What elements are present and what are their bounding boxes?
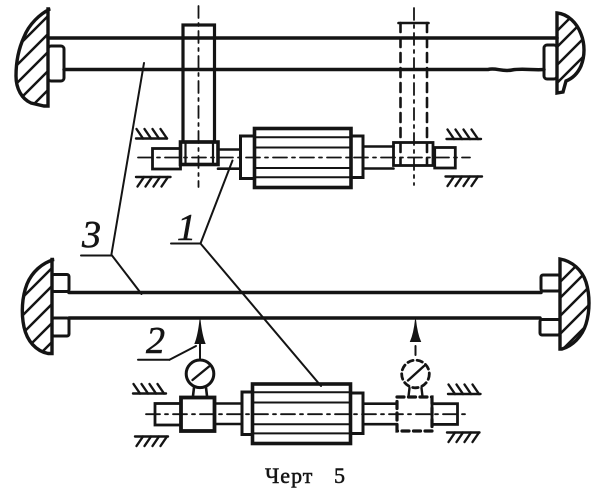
svg-text:Черт: Черт: [265, 463, 313, 488]
right column top cap: [399, 22, 429, 25]
left column centerline (vertical dash-dot): [198, 6, 200, 187]
roller body (bottom): [253, 384, 351, 444]
ground symbol top-left upper: [136, 129, 167, 139]
mandrel shaft (bottom): upper line: [69, 291, 541, 295]
ground symbol top-right upper: [447, 130, 482, 140]
mandrel shaft (top, between centers): upper line: [48, 36, 557, 40]
spindle left end piece (top assembly): [153, 149, 181, 170]
hatching of right bottom support: [552, 236, 612, 362]
leader from label 1 to top roller spindle: [201, 161, 233, 244]
svg-text:3: 3: [81, 214, 101, 256]
right column (dashed / phantom stand): [399, 23, 402, 165]
hatching of right top support: [548, 0, 612, 110]
bracket holding indicator 1: [181, 398, 215, 432]
ground symbol bottom-left lower: [135, 437, 168, 447]
ground symbol bottom-right upper: [448, 385, 481, 395]
dial indicator 1: stem: [193, 388, 207, 397]
upper boss on left bottom support: [52, 275, 69, 292]
lower boss on right bottom support: [540, 320, 560, 336]
dial indicator 1: needle: [193, 367, 210, 381]
dial indicator 1: dial face: [186, 360, 214, 388]
right column centerline (vertical dash-dot): [413, 8, 415, 185]
left support block (hatched), bottom assembly: [22, 260, 54, 354]
bracket inner wall right: [212, 142, 214, 165]
lower boss on left bottom support: [52, 318, 69, 336]
right support block (hatched), top assembly: [557, 13, 584, 93]
leader shelf under label 1: [171, 243, 201, 245]
dial indicator 2: dial face (dashed): [402, 360, 430, 388]
spindle centerline (top assembly, dash-dot): [138, 157, 470, 159]
spindle right end piece (top assembly): [435, 148, 456, 169]
base bracket of right column: [394, 143, 434, 166]
roller left collar (top): [241, 136, 255, 179]
ground symbol top-right lower: [446, 177, 483, 187]
base bracket of left column: [181, 142, 219, 165]
roller left collar (bottom): [242, 392, 253, 435]
roller body inner lines (bottom): [254, 392, 349, 433]
leader shelf under label 3: [81, 255, 112, 257]
spindle right end piece (bottom assembly): [432, 404, 458, 425]
boss on left top support: [48, 46, 64, 81]
svg-text:5: 5: [334, 463, 346, 488]
dial indicator 2: plunger rod (dashed): [415, 346, 417, 360]
spindle step between bracket 1 and roller: [215, 404, 243, 425]
dial indicator 1: plunger arrow: [195, 320, 205, 344]
roller body (top): [255, 129, 352, 188]
mandrel shaft (top): lower line: [64, 69, 544, 71]
dial indicator 2: plunger arrow: [411, 320, 421, 342]
spindle step between roller and right bracket: [363, 147, 394, 169]
ground symbol top-left lower: [136, 177, 171, 187]
spindle centerline (bottom assembly, dash-dot): [146, 413, 470, 415]
svg-text:2: 2: [146, 320, 165, 362]
roller right collar (bottom): [351, 393, 364, 434]
spindle step between left bracket and roller: [218, 150, 239, 169]
upper boss on right bottom support: [541, 275, 560, 291]
dial indicator 1: plunger rod: [199, 344, 201, 361]
leader shelf under label 2: [138, 359, 170, 361]
right support block (hatched), bottom assembly: [560, 259, 589, 349]
mandrel shaft (bottom): lower line: [69, 316, 540, 320]
bracket holding indicator 2 (dashed): [397, 397, 432, 431]
dial indicator 2: stem: [409, 388, 423, 397]
bracket inner wall left: [184, 142, 186, 165]
ground symbol bottom-left upper: [133, 384, 166, 394]
left column (solid support stand): [183, 25, 215, 142]
leader from label 2 to indicator plunger: [170, 346, 197, 360]
boss on right top support: [544, 45, 557, 79]
svg-text:1: 1: [177, 207, 196, 249]
leader from label 3 to bottom mandrel: [112, 256, 142, 295]
dial indicator 2: needle: [408, 366, 424, 381]
roller body inner lines (top): [256, 137, 350, 177]
hatching of left bottom support: [6, 242, 86, 377]
ground symbol bottom-right lower: [447, 433, 480, 443]
hatching of left top support: [2, 0, 82, 134]
leader from label 3 to top mandrel: [112, 63, 145, 254]
spindle left end piece (bottom assembly): [155, 404, 181, 426]
roller right collar (top): [351, 136, 363, 178]
spindle step between roller and bracket 2: [363, 404, 397, 425]
leader from label 1 to bottom roller: [201, 244, 322, 387]
left support block (hatched), top assembly: [16, 9, 50, 106]
